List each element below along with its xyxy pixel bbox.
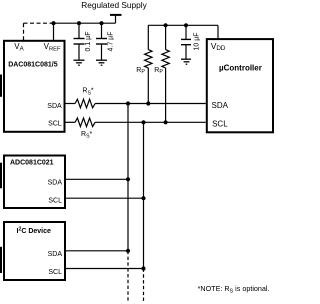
node I2C SDA junction: [126, 249, 130, 253]
wire SDA bus dashed tail: [127, 251, 129, 302]
node: RP1-SDA junction: [146, 101, 150, 105]
wire VDD stub: [217, 25, 219, 39]
edge mark (ADC): [0, 163, 2, 189]
wire I2C SDA: [66, 250, 128, 252]
svg-text:SCL: SCL: [48, 269, 62, 276]
node VREF junction: [51, 21, 55, 25]
edge mark (I2C): [0, 247, 2, 273]
node ADC SCL junction: [141, 196, 145, 200]
wire ADC SCL: [66, 197, 144, 199]
wire VREF pin stub: [53, 23, 55, 40]
edge mark (DAC): [0, 75, 2, 97]
svg-text:RP: RP: [154, 67, 163, 75]
wire: right supply rail: [148, 24, 218, 26]
svg-text:ADC081C021: ADC081C021: [10, 159, 54, 166]
wire ADC SDA: [66, 178, 128, 180]
ground (C2): [96, 60, 107, 65]
svg-text:SDA: SDA: [212, 101, 229, 110]
IC U2 uController box: [207, 39, 273, 132]
svg-text:SDA: SDA: [48, 251, 63, 258]
node: RP2-SCL junction: [164, 120, 168, 124]
svg-text:µController: µController: [219, 63, 262, 72]
svg-text:RP: RP: [136, 67, 145, 75]
svg-text:SDA: SDA: [47, 103, 62, 110]
IC U1 DAC081C081/5 box: [4, 41, 65, 132]
wire SDA row: [95, 103, 206, 105]
supply terminal symbol: [110, 15, 122, 23]
svg-text:SDA: SDA: [48, 179, 63, 186]
capacitor C1 0.1uF: [74, 23, 85, 60]
capacitor C2 4.7uF: [96, 23, 107, 60]
wire SDA bus vertical: [127, 104, 129, 251]
node: SCL bus top junction: [141, 120, 145, 124]
capacitor C3 10uF: [181, 25, 191, 59]
svg-text:Regulated Supply: Regulated Supply: [81, 0, 147, 10]
node ADC SDA junction: [126, 177, 130, 181]
wire SCL row: [95, 121, 206, 123]
resistor RS1 (series, SDA): [66, 99, 96, 108]
svg-text:4.7 µF: 4.7 µF: [108, 32, 115, 52]
wire I2C SCL: [66, 268, 144, 270]
svg-text:I2C Device: I2C Device: [17, 227, 52, 236]
wire SCL bus dashed tail: [143, 269, 145, 303]
node I2C SCL junction: [141, 266, 145, 270]
wire SCL bus vertical: [143, 122, 145, 268]
ground (C1): [74, 60, 85, 65]
IC U4 I2C Device box: [4, 222, 65, 280]
wire: left supply rail: [54, 22, 116, 24]
svg-text:SCL: SCL: [212, 119, 228, 128]
svg-text:0.1 µF: 0.1 µF: [85, 32, 92, 52]
resistor RP1: [145, 25, 152, 103]
ground (C3): [181, 59, 191, 64]
IC U3 ADC081C021 box: [4, 156, 65, 209]
svg-text:DAC081C081/5: DAC081C081/5: [8, 61, 58, 68]
node: SDA bus top junction: [126, 101, 130, 105]
svg-text:SCL: SCL: [48, 198, 62, 205]
svg-text:SCL: SCL: [48, 121, 62, 128]
svg-text:10 µF: 10 µF: [194, 32, 201, 50]
resistor RS2 (series, SCL): [66, 118, 96, 127]
wire (dashed) VA to VREF node: [24, 23, 53, 40]
resistor RP2: [162, 25, 169, 122]
